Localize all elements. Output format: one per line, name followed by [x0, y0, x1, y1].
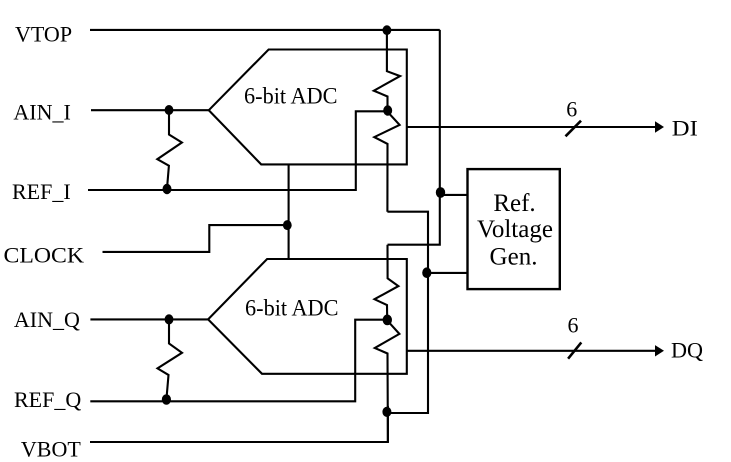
junction node VBOT/ladder2 [382, 407, 391, 417]
junction node ladder1 tap / REF_I [383, 105, 392, 115]
resistor AIN_I to REF_I [157, 110, 182, 188]
resistor ladder1 lower R [374, 111, 399, 212]
junction node VTOP/ladder1 [383, 25, 392, 35]
junction node AIN_Q resistor [165, 314, 174, 324]
svg-text:Voltage: Voltage [477, 216, 553, 243]
wire REF_I with riser to ladder1 tap [88, 111, 387, 190]
svg-text:CLOCK: CLOCK [4, 243, 85, 268]
junction node AIN_I resistor [165, 105, 174, 115]
Ref Voltage Gen box [468, 169, 560, 289]
svg-text:AIN_Q: AIN_Q [14, 307, 80, 332]
svg-text:REF_I: REF_I [12, 179, 71, 204]
junction node ref gen lower tap [422, 267, 431, 278]
wire to Ref Voltage Gen upper input [440, 194, 468, 196]
svg-text:DI: DI [672, 116, 698, 141]
svg-text:VBOT: VBOT [21, 436, 81, 461]
wire CLOCK with step [103, 225, 289, 252]
arrowhead DQ [655, 345, 664, 356]
svg-text:6: 6 [566, 96, 577, 121]
resistor AIN_Q to REF_Q [158, 319, 183, 399]
svg-text:6: 6 [568, 312, 579, 337]
wire REF_Q with riser to ladder2 tap [90, 320, 387, 402]
op-amp U1 6-bit ADC I hexagon [209, 50, 407, 165]
bus slash DQ [568, 342, 581, 358]
arrowhead DI [655, 121, 664, 132]
svg-text:Gen.: Gen. [490, 244, 538, 271]
svg-text:Ref.: Ref. [493, 190, 535, 217]
resistor ladder2 lower R [375, 320, 400, 442]
wire VTOP horizontal [90, 29, 440, 31]
bus slash DI [566, 121, 582, 137]
svg-text:AIN_I: AIN_I [13, 100, 70, 125]
wire vertical A from VTOP down to ladder2 top [388, 30, 440, 245]
junction node CLOCK [283, 220, 292, 230]
junction node ladder2 tap / REF_Q [383, 315, 392, 326]
svg-text:6-bit ADC: 6-bit ADC [244, 84, 338, 109]
junction node REF_Q resistor [162, 394, 171, 405]
wire VBOT horizontal [90, 406, 388, 442]
wire DI output bus [407, 126, 656, 128]
svg-text:VTOP: VTOP [15, 22, 72, 47]
resistor ladder2 upper R [375, 245, 399, 320]
wire clock vertical between ADCs [288, 164, 290, 259]
wire DQ output bus [407, 350, 656, 352]
wire to Ref Voltage Gen lower input [428, 272, 468, 274]
wire vertical B ladder1 bottom to ladder2 bottom [387, 212, 428, 413]
wire AIN_I [91, 109, 209, 111]
svg-text:REF_Q: REF_Q [14, 387, 81, 412]
svg-text:6-bit ADC: 6-bit ADC [245, 296, 339, 321]
op-amp U2 6-bit ADC Q hexagon [208, 259, 407, 374]
svg-text:DQ: DQ [671, 337, 703, 362]
resistor ladder1 upper R [374, 30, 400, 111]
junction node REF_I resistor [163, 184, 172, 194]
junction node ref gen upper tap [436, 187, 445, 198]
wire AIN_Q [90, 318, 208, 320]
